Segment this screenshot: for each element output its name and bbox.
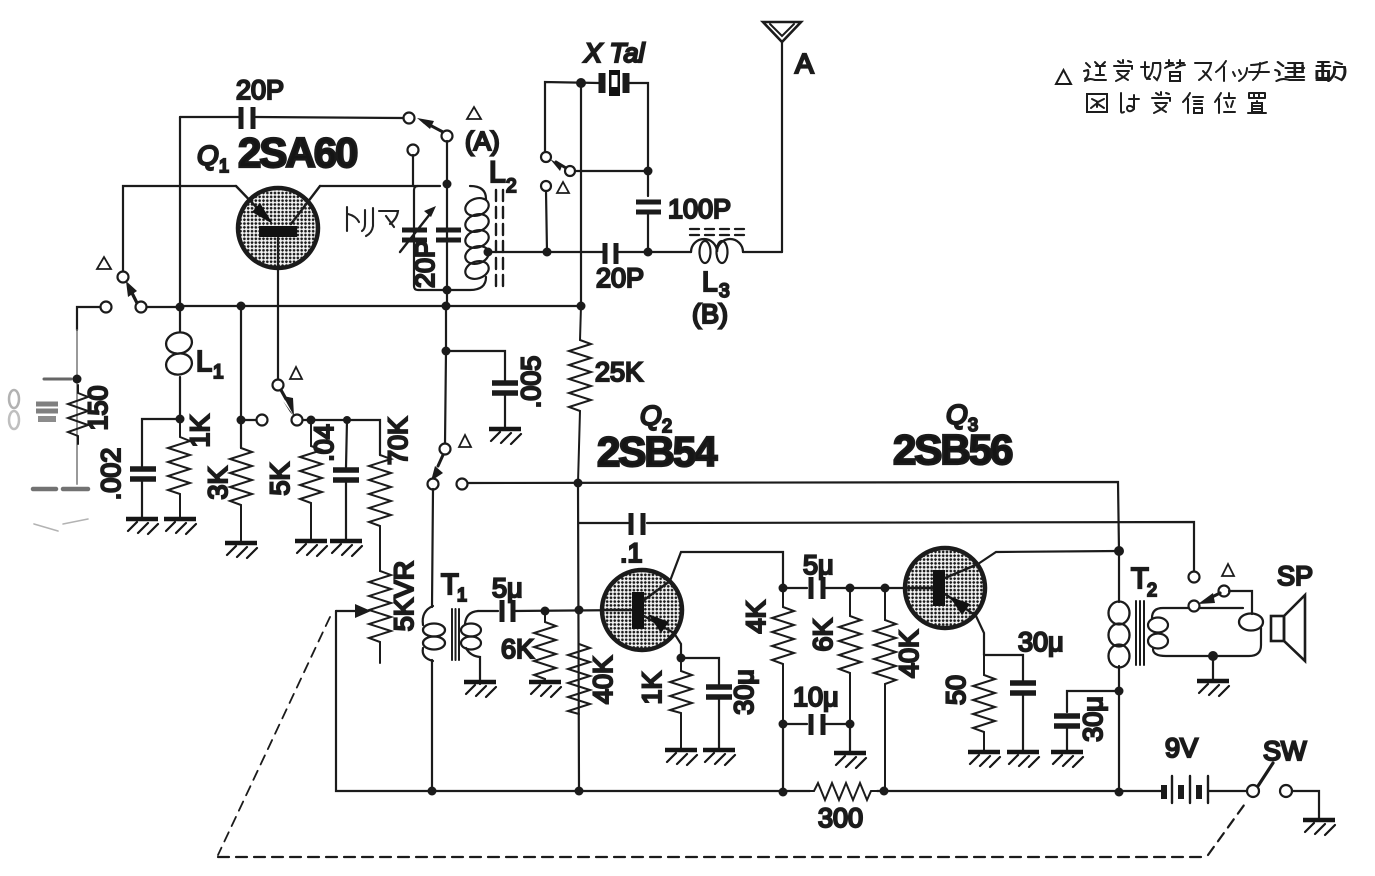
svg-text:30μ: 30μ [1018,627,1064,657]
wire battery to SW [1208,790,1247,792]
T1 core [452,609,459,660]
svg-text:1K: 1K [637,671,667,704]
junction 6K-b bottom [846,720,855,729]
switch S2 pole [136,302,147,313]
wire 30u-c branch [1067,691,1119,712]
svg-text:100P: 100P [668,194,731,224]
svg-text:1: 1 [457,585,467,605]
wire 30u to ground [718,697,720,750]
switch S3 contact down [541,181,551,191]
wire 4K bottom to rail [782,724,784,792]
L2 core dashed lines [496,190,503,286]
ground (50) [968,752,1000,767]
junction rail 40K-a [575,787,584,796]
junction Q2 collector / 4K [779,584,788,593]
ground (.005) [489,429,521,444]
wire S1 pole down to tank top [446,141,448,183]
svg-text:20P: 20P [596,263,644,293]
svg-text:.1: .1 [620,538,643,568]
wire 5u-b to Q3 base [823,587,933,589]
svg-text:Q: Q [197,140,219,171]
svg-text:5μ: 5μ [803,550,834,580]
switch S5 contact left [428,479,439,490]
switch SW arm [1258,763,1273,786]
battery 9V [1164,776,1208,803]
junction 3K contact stub [237,416,246,425]
switch S5 arm [431,455,443,481]
ground (1K) [164,519,196,534]
capacitor 30u-c [1054,716,1080,726]
svg-text:(B): (B) [692,299,728,329]
voice coil loop [1239,614,1263,631]
wire 30u-c to ground [1066,726,1068,752]
junction T2 top [1114,546,1124,556]
capacitor 30u-b [1010,683,1036,693]
wire 100P to link wire [647,212,649,252]
capacitor 5u-b [811,577,823,599]
svg-text:30μ: 30μ [729,669,759,715]
switch S6 contact up [1189,572,1200,583]
wire S5 left contact down to T1 [432,489,433,607]
ground (30u-b) [1007,752,1039,767]
wire Q3 emitter [976,616,984,655]
svg-text:(A): (A) [465,126,500,156]
resistor 1K (L1 node) [168,419,190,519]
wire S1 contact b down to tank top wire [412,155,414,186]
resistor 6K (T1) [534,611,556,682]
junction 40K-a top [574,479,583,488]
ground (6K) [529,682,561,697]
capacitor .005 [492,383,518,393]
wire tank bottom vertical to S5 [445,291,447,444]
wire S2 left contact to battery ghost [77,307,100,330]
junction rail 40K-b [880,787,889,796]
triangle marker near S2 [97,257,111,269]
svg-text:4K: 4K [741,600,771,633]
junction L2 tap [484,248,493,257]
junction tank branch on emitter rail [442,302,451,311]
resistor 40K-b [874,588,896,792]
transformer T2 secondary [1148,618,1168,649]
svg-text:150: 150 [83,385,113,430]
wire tank middle branch [446,183,448,291]
switch S2 contact up (to Q1 emitter) [118,272,129,283]
ground (30u-c) [1051,752,1083,767]
switch S6 arm [1198,593,1220,604]
ground (30u Q2) [703,750,735,765]
resistor 150 [68,385,88,444]
switch SW pole [1247,785,1259,797]
ground (speaker) [1197,681,1229,696]
wire Q2 collector [670,552,783,585]
junction crystal left [576,78,586,88]
dashed gang line left diagonal [218,617,330,855]
resistor 4K [772,588,794,724]
capacitor .04 [333,470,359,480]
svg-text:6K: 6K [808,618,838,651]
inductor L3 [619,239,782,263]
tank circuit box outline [414,186,486,290]
transistor Q2 body [602,570,682,650]
triangle marker near S3 [557,182,569,193]
annotation line1: 送受切替スイッチ連動 [1084,60,1345,81]
ground (3K) [225,543,257,558]
ground (SW) [1303,820,1335,835]
svg-text:10μ: 10μ [793,682,839,712]
triangle marker (legend) [1056,70,1071,84]
capacitor .002 [130,469,156,479]
junction .005 branch [442,347,451,356]
svg-text:50: 50 [941,675,971,705]
wire Q1 collector to tank [320,185,418,187]
junction tank bottom [443,286,452,295]
speaker wiring loop [1152,608,1261,656]
wire emitter to 30u-b [984,655,1023,680]
resistor 40K-a [568,644,590,714]
VR wiper arrow [336,604,371,618]
T2 core [1136,601,1144,665]
resistor 1K (Q2 emitter) [670,658,692,750]
svg-text:40K: 40K [588,656,618,704]
svg-text:.04: .04 [309,424,339,462]
junction rail 4K [779,788,788,797]
wire 30u-b to ground [1022,693,1024,752]
triangle marker near S5 [459,435,471,447]
capacitor 30u (Q2 emitter) [706,687,732,697]
emitter rail wire y306 [180,305,581,307]
wire 6K-b to ground [849,724,851,753]
wire L2 tap to antenna link [488,251,603,253]
L3 core dashed [690,229,744,235]
switch S3 pole [565,166,575,176]
junction 40K-b top [881,584,890,593]
junction 100P bottom [644,248,653,257]
svg-text:2SB54: 2SB54 [597,428,718,475]
junction 40K-a base wire [575,606,584,615]
svg-text:20P: 20P [410,240,440,288]
wire emitter to 30u [681,658,719,684]
junction 4K bottom [779,720,788,729]
svg-text:L: L [702,266,718,297]
svg-text:2SA60: 2SA60 [238,129,357,176]
wire S6 pole to speaker loop [1229,591,1252,614]
junction L1 top [176,303,185,312]
svg-text:SP: SP [1277,561,1313,591]
svg-text:X Tal: X Tal [583,38,646,68]
transformer T1 secondary [461,611,481,684]
svg-text:9V: 9V [1165,733,1198,763]
junction 6K-b top [846,584,855,593]
wire S5 right contact along y483 to T2 top [468,482,1119,551]
trimmer capacitor 20P plates [402,230,427,240]
svg-text:2SB56: 2SB56 [893,426,1012,473]
dashed gang line horizontal [218,856,1206,858]
wire .04 branch [346,420,347,467]
ghost battery marks (faded scan) [9,330,88,531]
ground (.04) [330,541,362,556]
transformer T1 primary [423,606,445,791]
transistor Q1 body [236,186,320,380]
junction crystal common on emitter rail [577,302,586,311]
resistor 50 [973,655,995,752]
switch S2 arm [126,281,137,303]
resistor 5K [300,420,322,541]
resistor 6K-b [839,588,861,724]
svg-text:L: L [196,346,212,378]
capacitor .1 [631,513,643,535]
wire 3K branch vertical [240,306,242,448]
capacitor C1 20P [241,107,253,129]
potentiometer 5K VR [369,571,391,663]
ground (.002) [126,519,158,534]
triangle marker near S4 [290,367,302,379]
inductor L2 coil loops [463,195,491,282]
ground (5K) [295,541,327,556]
wire wiper down to bottom rail [336,611,432,791]
wire Q3 collector [978,551,1119,564]
junction speaker ground [1208,651,1218,661]
svg-text:1: 1 [219,156,229,176]
resistor 300 (in rail) [810,783,877,800]
speaker SP [1271,595,1305,661]
svg-text:5KVR: 5KVR [389,561,419,632]
label トリマ (katakana strokes) [347,207,398,236]
switch S1 pole [442,131,453,142]
svg-text:1: 1 [213,362,224,383]
svg-text:SW: SW [1263,736,1307,766]
antenna A [763,22,801,252]
switch SW contact [1280,785,1292,797]
triangle marker near S1 [467,107,481,119]
switch S5 contact right [457,479,468,490]
bottom supply rail [432,790,1161,792]
svg-text:2: 2 [1147,580,1157,600]
switch S1 contact b [408,145,419,156]
wire crystal right lead [629,83,648,196]
junction 5K top [307,416,316,425]
wire S4 to bias chain [303,420,380,455]
wire collector node to 5u-b [783,587,807,589]
capacitor 10u [811,714,823,735]
svg-text:70K: 70K [383,417,413,465]
junction rail T1 [428,787,437,796]
svg-text:30μ: 30μ [1078,696,1108,742]
ground (1K Q2) [665,750,697,765]
junction 3K top [237,302,246,311]
wire crystal left lead [545,82,599,152]
wire S3 lower contact down to link wire [546,191,547,252]
wire L1 node to .002 [142,419,180,466]
junction Q2 emitter [677,654,686,663]
switch S1 contact a [404,113,415,124]
switch S2 contact left [101,302,112,313]
svg-text:3K: 3K [203,466,233,499]
triangle marker near S6 [1222,564,1234,576]
ground (T1 secondary) [464,682,496,697]
switch S4 arm [281,390,294,416]
svg-text:6K: 6K [501,634,534,664]
dashed gang line right diagonal [1208,801,1247,855]
wire 40K-a vertical [578,483,579,791]
wire speaker loop to ground [1212,656,1214,681]
svg-text:.002: .002 [96,448,126,501]
switch S1 arm [417,118,443,132]
svg-text:25K: 25K [595,357,643,387]
junction ghost branch [73,375,82,384]
resistor 70K [369,455,391,571]
switch S6 contact down [1189,601,1200,612]
switch S5 pole [440,444,451,455]
switch S3 contact up [541,152,551,162]
crystal X1 [602,70,626,96]
junction rail T2 [1115,788,1124,797]
wire .005 to ground [504,393,506,429]
svg-text:A: A [795,48,814,79]
transistor Q3 body [905,548,985,628]
wire top-left horizontal [180,117,403,118]
junction .04 top ring [343,416,351,424]
junction 30u-c branch [1115,687,1124,696]
svg-text:5μ: 5μ [492,573,523,603]
inductor L1 [164,307,194,419]
switch S4 closed contact [292,415,303,426]
junction S3-crystal right [644,167,653,176]
capacitor C2 plates (fixed in tank) [436,230,461,240]
wire S2 pole to L1 node [147,306,180,308]
trimmer arrow [400,206,436,252]
svg-text:20P: 20P [236,75,284,105]
wire .1 cap feedback [579,522,1194,572]
svg-text:L: L [489,156,506,189]
ground (6K-b) [834,753,866,768]
svg-text:2: 2 [506,176,517,197]
wire Q1 emitter to left [123,186,236,272]
capacitor 100P [636,202,661,212]
wire to .005 [446,351,505,380]
svg-text:5K: 5K [265,462,295,495]
wire stub to S4 contact [241,419,256,421]
wire 10u [783,723,850,725]
svg-text:.005: .005 [516,356,546,409]
resistor 3K [230,448,252,543]
wire Q2 emitter [674,633,681,658]
wire T1 sec to 5u [478,610,498,612]
resistor 25K [569,306,591,483]
svg-text:40K: 40K [894,630,924,678]
wire .04 to ground [345,480,347,541]
svg-text:1K: 1K [185,414,215,447]
transformer T2 primary [1109,551,1130,792]
svg-text:Q: Q [640,400,662,431]
junction L1 bottom [176,415,185,424]
junction 6K top [541,607,550,616]
wire .002 to ground [141,479,143,519]
wire crystal common vertical [580,83,582,306]
capacitor 5u [502,600,513,622]
switch S4 pole (Q1 base) [273,380,284,391]
wire vertical from 20P down to emitter rail [179,117,181,306]
svg-text:300: 300 [818,803,863,833]
junction link [543,248,552,257]
annotation line2: 図は受信位置 [1087,92,1266,113]
junction tank top [443,180,452,189]
switch S3 arm [550,159,566,171]
capacitor C3 20P (link) [605,243,616,264]
wire SW to ground [1292,791,1319,820]
switch S6 pole [1219,586,1230,597]
wire 5u to Q2 base [513,610,632,611]
wire S3 pole to crystal right vertical [575,170,648,172]
switch S4 open contact [257,415,268,426]
